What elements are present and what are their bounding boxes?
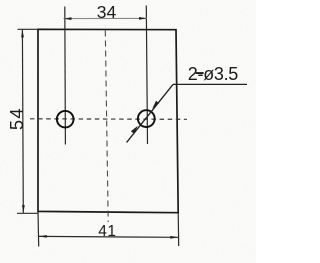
leader line to right hole (diagonal through hole) <box>127 84 173 142</box>
extension line 54 top <box>18 28 38 30</box>
dimension line 54 <box>21 30 24 213</box>
vertical centerline through right hole <box>146 6 147 145</box>
extension line 54 bottom <box>17 212 38 214</box>
leader arrowhead upper (points to hole from upper right) <box>152 101 159 109</box>
arrowhead 41 left <box>39 235 47 238</box>
hole right <box>138 110 155 127</box>
leader arrowhead lower (points to hole from lower left) <box>131 126 138 134</box>
leader underline <box>173 83 247 85</box>
arrowhead 54 bottom <box>22 205 25 213</box>
dimension line 41 <box>39 235 179 238</box>
scan background texture <box>0 0 1 1</box>
horizontal dashed centerline through holes <box>30 118 187 121</box>
svg-text:34: 34 <box>97 2 117 22</box>
hole left <box>57 111 74 128</box>
extension line 41 right (below plate) <box>177 213 180 246</box>
svg-text:41: 41 <box>98 223 116 240</box>
extension line 41 left (below plate) <box>37 212 40 247</box>
vertical dashed centerline of plate <box>105 31 108 223</box>
arrowhead 54 top <box>21 29 24 37</box>
arrowhead 34 right <box>139 17 147 20</box>
svg-text:54: 54 <box>7 107 27 130</box>
dash extender of label <box>196 72 204 74</box>
plate outline <box>38 29 178 212</box>
svg-text:2-ø3.5: 2-ø3.5 <box>188 64 239 84</box>
arrowhead 41 right <box>170 236 178 239</box>
vertical centerline through left hole <box>64 7 67 145</box>
arrowhead 34 left <box>63 17 71 20</box>
dimension line 34 <box>64 17 148 19</box>
